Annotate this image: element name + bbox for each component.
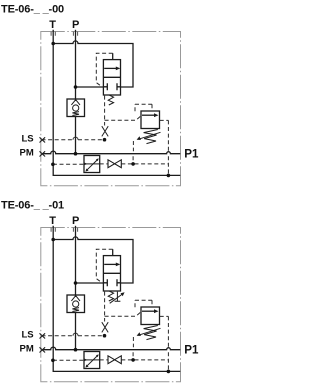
svg-text:TE-06-_ _-01: TE-06-_ _-01	[1, 199, 64, 211]
svg-text:TE-06-_ _-00: TE-06-_ _-00	[1, 3, 64, 15]
